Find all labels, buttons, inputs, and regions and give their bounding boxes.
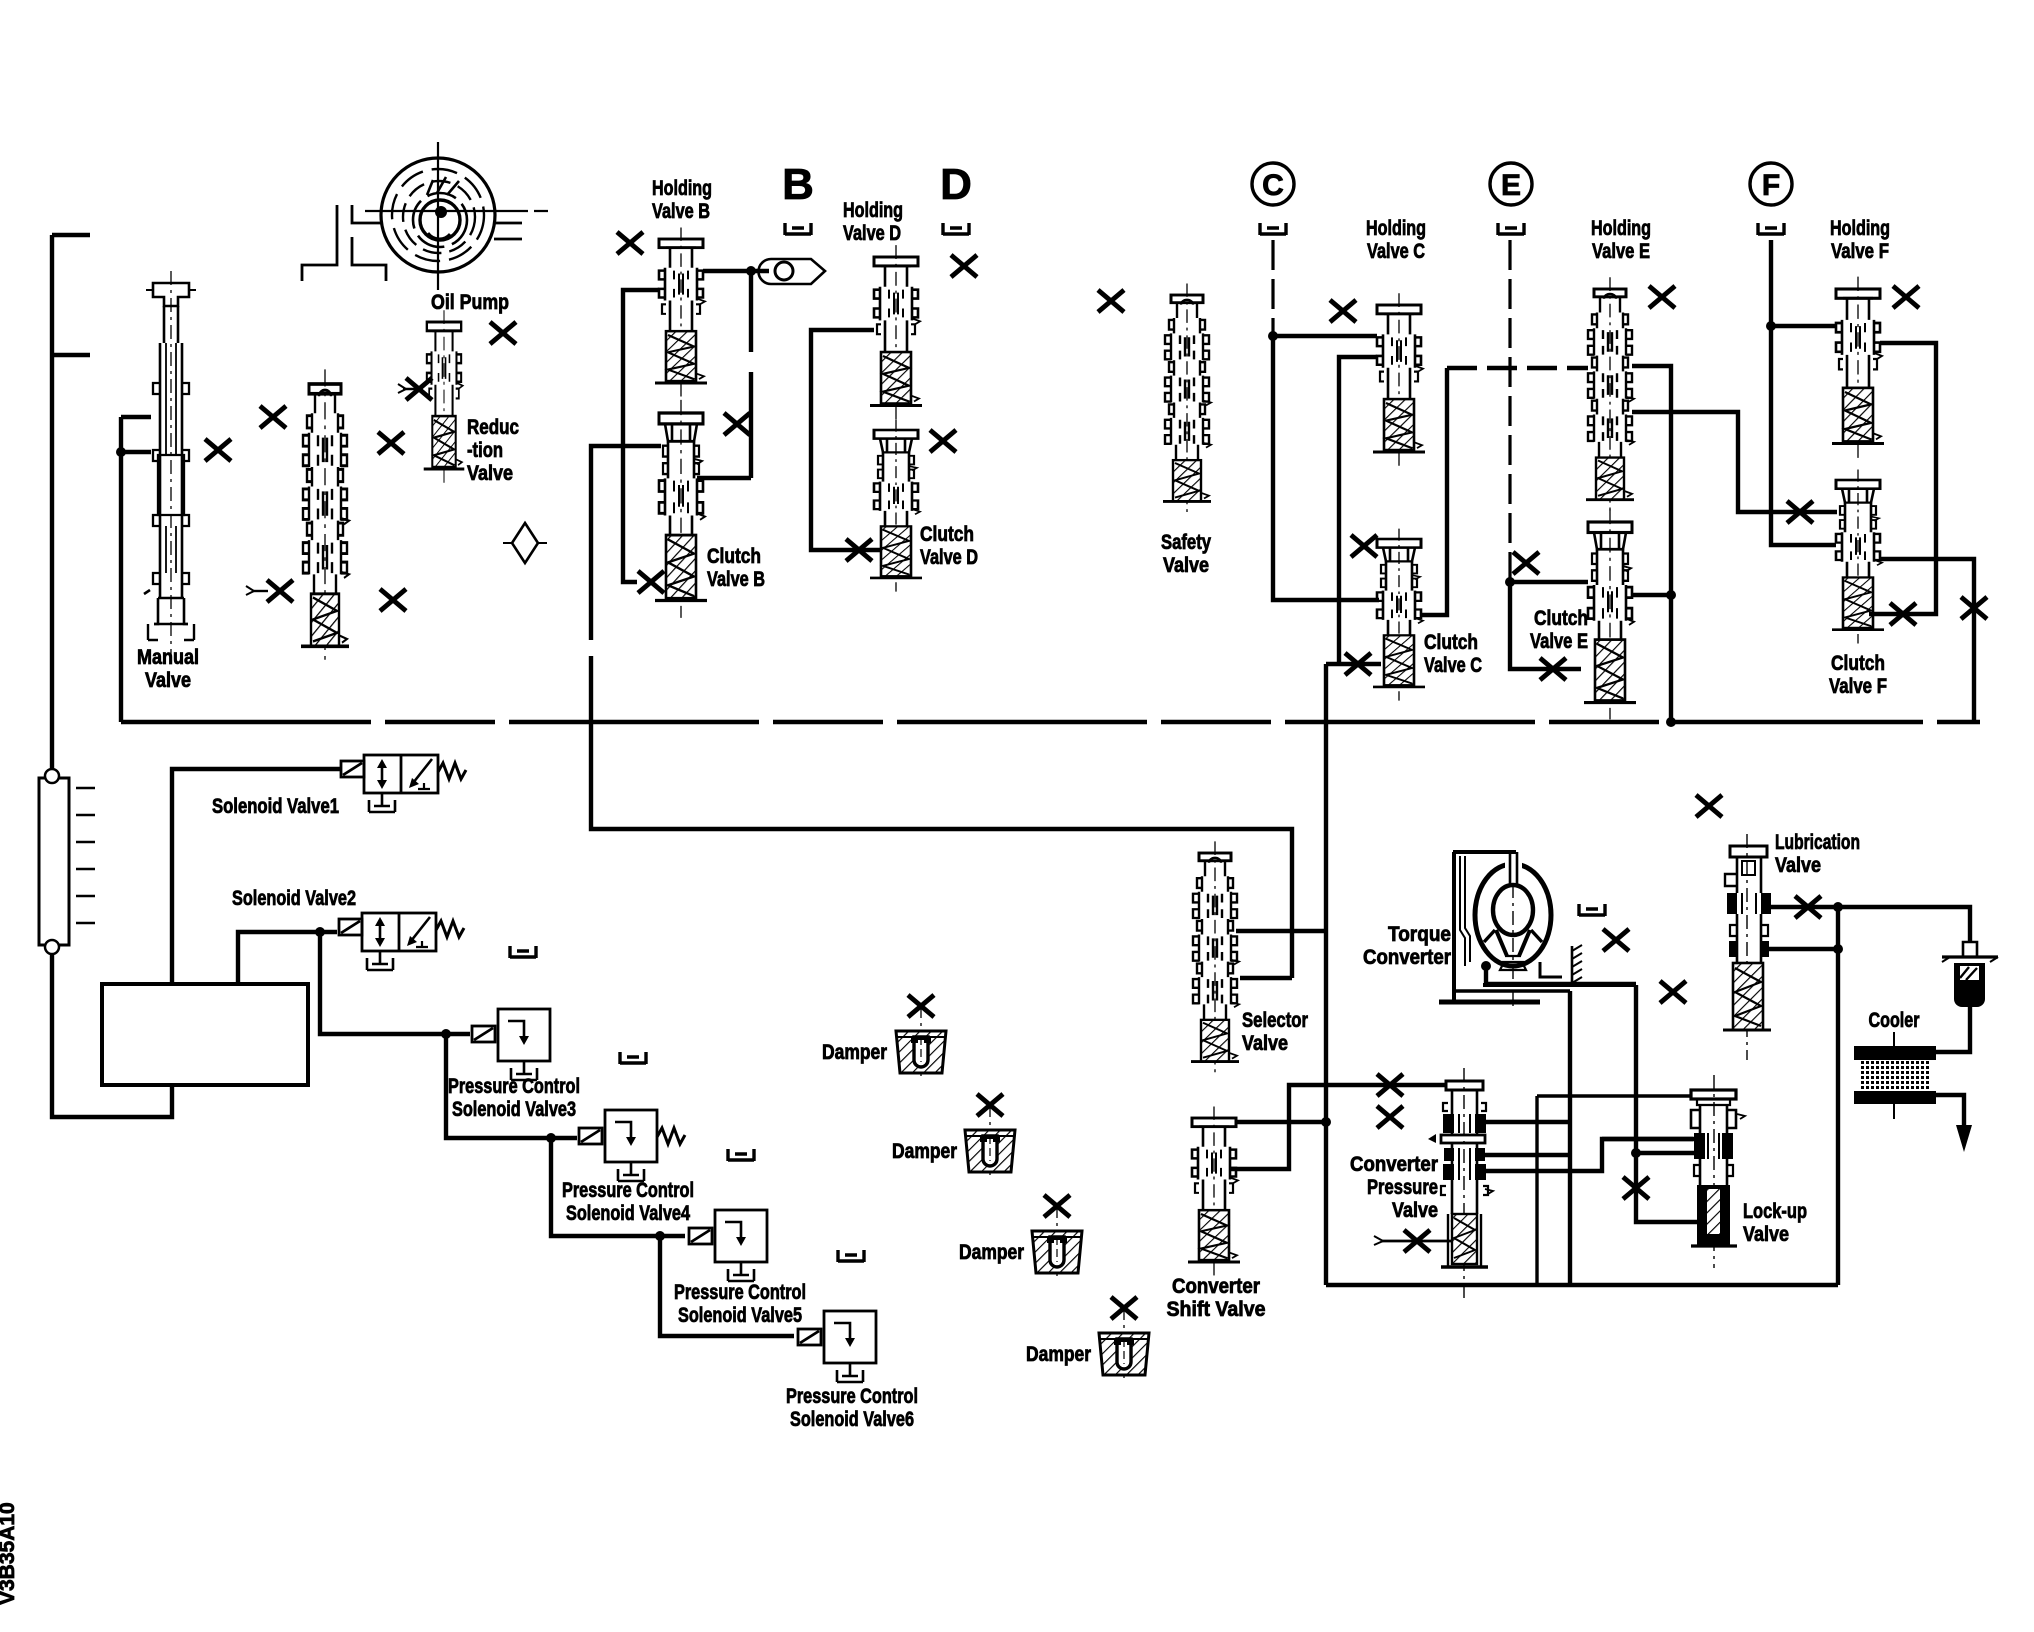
wire clutch valve C spring line [1326, 662, 1381, 666]
wire tank bottom to controller return [52, 954, 172, 1117]
wire clutch valve C out to holding valve E (chain) [1420, 368, 1447, 615]
svg-text:Valve: Valve [1743, 1223, 1789, 1246]
svg-text:Valve: Valve [1163, 554, 1209, 577]
orifice X between manual and spool [205, 439, 231, 461]
wire shift valve to converter pressure valve [1231, 1085, 1446, 1169]
svg-text:Solenoid Valve2: Solenoid Valve2 [232, 887, 356, 910]
holding valve D [870, 245, 922, 419]
wire C line down [1271, 240, 1274, 336]
orifice X right of TC [1603, 929, 1629, 951]
svg-text:Solenoid Valve4: Solenoid Valve4 [566, 1202, 690, 1225]
svg-text:Holding: Holding [1591, 217, 1651, 240]
svg-text:Valve C: Valve C [1424, 654, 1482, 677]
exhaust bracket under E [1498, 223, 1524, 235]
orifice X right of holding valve E [1649, 286, 1675, 308]
wire TC right side [1540, 962, 1562, 977]
wire F line down [1771, 240, 1836, 545]
svg-text:Holding: Holding [843, 199, 903, 222]
orifice X clutch valve B spring line [638, 571, 664, 593]
node C circle [1252, 163, 1294, 205]
wire selector port to riser [1236, 929, 1326, 933]
orifice X right of oil pump [490, 322, 516, 344]
filter [1942, 942, 1998, 1007]
wire pilot cascade to PCSV3 [320, 932, 470, 1034]
node junction C [1268, 331, 1278, 341]
svg-text:Valve: Valve [1242, 1032, 1288, 1055]
node junction check valve [746, 266, 756, 276]
check valve [759, 259, 826, 284]
svg-text:Valve B: Valve B [652, 200, 710, 223]
wire lubrication out [1770, 907, 1970, 942]
svg-text:Selector: Selector [1242, 1009, 1308, 1032]
damper 3 [1032, 1206, 1082, 1276]
wire clutch valve F out to bus [1880, 559, 1974, 722]
svg-text:Damper: Damper [892, 1140, 957, 1163]
wire converter shift valve cap port [1237, 1120, 1326, 1124]
node junction PCSV5 [655, 1231, 665, 1241]
svg-text:Solenoid Valve3: Solenoid Valve3 [452, 1098, 576, 1121]
node E circle [1490, 163, 1532, 205]
svg-text:Solenoid Valve1: Solenoid Valve1 [212, 795, 339, 818]
wire converter feed riser [1568, 991, 1572, 1285]
wire holding valve C port2 to clutch C spring loop [1339, 357, 1377, 664]
wire lube return riser [1836, 907, 1840, 1285]
orifice X on shift-CPV wire [1377, 1074, 1403, 1096]
wire TC drain [1486, 966, 1636, 984]
orifice X right of holding valve F [1893, 286, 1919, 308]
svg-text:Converter: Converter [1172, 1275, 1260, 1298]
svg-text:Pressure Control: Pressure Control [448, 1075, 580, 1098]
orifice X right of clutch valve D [930, 430, 956, 452]
svg-text:-tion: -tion [467, 439, 503, 462]
svg-text:Solenoid Valve5: Solenoid Valve5 [678, 1304, 802, 1327]
svg-text:Pressure: Pressure [1367, 1176, 1438, 1199]
node junction clutch E out [1666, 590, 1676, 600]
oil pump [365, 142, 548, 290]
orifice X left of safety valve [1098, 290, 1124, 312]
wire solenoid valve1 feed [172, 769, 341, 984]
wire F to holding valve F [1771, 324, 1836, 328]
node junction lock-up port2 [1631, 1148, 1641, 1158]
wire selector riser [1324, 664, 1328, 1285]
wire CPV port1 to converter feed riser [1483, 1120, 1571, 1124]
svg-text:Valve: Valve [1392, 1199, 1438, 1222]
holding valve B [655, 227, 707, 396]
exhaust bracket near PCSV4 [728, 1149, 754, 1161]
converter pressure valve [1428, 1068, 1493, 1300]
orifice X on E-F line [1787, 501, 1813, 523]
torque converter [1453, 852, 1551, 1010]
orifice X below shift-CPV wire [1377, 1106, 1403, 1128]
svg-text:Clutch: Clutch [1534, 607, 1588, 630]
exhaust bracket under C [1260, 223, 1286, 235]
exhaust bracket near SV2 [510, 946, 536, 958]
wire pilot cascade to PCSV6 [660, 1236, 794, 1336]
clutch valve E [1584, 509, 1636, 719]
arrow cooler outlet [1956, 1125, 1972, 1152]
manual valve [144, 271, 196, 660]
lubrication valve [1723, 834, 1771, 1060]
svg-text:Valve C: Valve C [1367, 240, 1425, 263]
converter shift valve [1188, 1106, 1240, 1275]
reduction valve pilot stub [403, 388, 423, 390]
clutch valve C [1373, 529, 1425, 701]
wire holding valve B left port down to clutch valve B spring [623, 290, 659, 582]
svg-text:Lubrication: Lubrication [1775, 831, 1860, 854]
wire holding valve E right to bus riser [1632, 366, 1671, 722]
orifice X right of left spool [378, 432, 404, 454]
node junction PCSV4 [546, 1133, 556, 1143]
wire lock-up port2 [1636, 1151, 1696, 1155]
node junction E [1505, 577, 1515, 587]
pressure control solenoid valve 6 [824, 1311, 876, 1363]
svg-text:Holding: Holding [652, 177, 712, 200]
svg-text:Valve F: Valve F [1831, 240, 1889, 263]
svg-text:Oil Pump: Oil Pump [431, 291, 509, 314]
wire main pressure bus (chain line) [121, 720, 1980, 724]
orifice X clutch valve C spring [1345, 653, 1371, 675]
svg-text:Lock-up: Lock-up [1743, 1200, 1807, 1223]
orifice X left-lower with tick [252, 590, 268, 592]
wire holding valve D left port down to clutch valve D spring [811, 330, 882, 550]
exhaust bracket under B [785, 223, 811, 235]
wire E line down [1508, 240, 1511, 582]
orifice X lower right of left spool [380, 589, 406, 611]
TC bottom feed lines [1483, 983, 1636, 987]
svg-text:Valve E: Valve E [1530, 630, 1588, 653]
orifice X above lubrication valve [1696, 795, 1722, 817]
wire holding valve B to check valve [703, 269, 769, 273]
wire solenoid valve2 feed [238, 932, 337, 984]
svg-text:V3B35A10: V3B35A10 [0, 1502, 19, 1605]
selector valve [1191, 841, 1239, 1074]
svg-text:Solenoid Valve6: Solenoid Valve6 [790, 1408, 914, 1431]
node left bracket lower stub [52, 353, 90, 357]
svg-text:Torque: Torque [1388, 923, 1451, 946]
svg-text:Cooler: Cooler [1869, 1009, 1920, 1032]
clutch valve B [655, 400, 707, 618]
wire CPV port3 to lock-up valve [1484, 1139, 1693, 1171]
orifice X left of clutch valve C cap [1351, 535, 1377, 557]
wire cooler outlet [1936, 1095, 1964, 1125]
pressure control solenoid valve 4 [605, 1110, 657, 1162]
wire pilot cascade to PCSV4 [446, 1034, 577, 1138]
svg-text:Valve D: Valve D [843, 222, 901, 245]
orifice X left of holding valve B [617, 232, 643, 254]
svg-text:C: C [1262, 169, 1284, 202]
svg-text:Clutch: Clutch [1424, 631, 1478, 654]
svg-text:Clutch: Clutch [1831, 652, 1885, 675]
holding valve F [1832, 277, 1884, 458]
wire C to holding valve C [1273, 334, 1377, 338]
cooler [1854, 1032, 1936, 1119]
lock-up valve [1691, 1075, 1745, 1268]
svg-text:Valve E: Valve E [1592, 240, 1650, 263]
svg-text:Valve: Valve [145, 669, 191, 692]
svg-text:F: F [1762, 169, 1780, 202]
orifice X left of clutch valve E [1513, 552, 1539, 574]
exhaust bracket near PCSV5 [838, 1250, 864, 1262]
wire pilot cascade to PCSV5 [551, 1138, 685, 1236]
node junction PCSV3 [441, 1029, 451, 1039]
wire clutch valve B out to selector valve [591, 446, 1292, 978]
svg-text:E: E [1501, 169, 1521, 202]
svg-text:Damper: Damper [822, 1041, 887, 1064]
wire selector valve port stub [1240, 976, 1292, 980]
node junction selector riser [1321, 1117, 1331, 1127]
svg-text:Pressure Control: Pressure Control [674, 1281, 806, 1304]
reduction valve [424, 310, 465, 482]
solenoid valve 1 [364, 755, 438, 793]
svg-text:Valve: Valve [467, 462, 513, 485]
node junction SV2 feed [315, 927, 325, 937]
exhaust bracket right of TC [1579, 904, 1605, 916]
orifice X clutch valve D spring line [846, 539, 872, 561]
orifice X on CPV pilot stub [1404, 1230, 1430, 1252]
controller block [102, 984, 308, 1085]
orifice X on clutch F out [1961, 597, 1987, 619]
svg-text:Valve F: Valve F [1829, 675, 1887, 698]
wire clutch valve E right port [1632, 593, 1671, 597]
node junction bus [1666, 717, 1676, 727]
node F circle [1750, 163, 1792, 205]
solenoid valve 2 [362, 913, 436, 951]
tank (strainer) [39, 769, 95, 954]
node junction torque converter drain [1481, 961, 1491, 971]
wire bottom return loop [1326, 1283, 1838, 1287]
orifice X right of TC bundle [1660, 981, 1686, 1003]
exhaust bracket under F [1758, 223, 1784, 235]
pressure control solenoid valve 5 [715, 1210, 767, 1262]
svg-text:Pressure Control: Pressure Control [786, 1385, 918, 1408]
orifice X left of holding valve C [1330, 300, 1356, 322]
wire lube port2 [1767, 947, 1838, 951]
exhaust bracket near PCSV3 [620, 1052, 646, 1064]
svg-text:B: B [782, 160, 814, 209]
damper 4 [1099, 1308, 1149, 1378]
svg-text:Reduc: Reduc [467, 416, 519, 439]
svg-text:Valve B: Valve B [707, 568, 765, 591]
wire E to clutch valve E port [1510, 580, 1588, 584]
holding valve C [1373, 293, 1425, 465]
safety valve [1163, 283, 1211, 513]
wire lock-up port1 [1602, 1137, 1696, 1141]
svg-text:Clutch: Clutch [707, 545, 761, 568]
wire C down to clutch valve C [1273, 336, 1379, 600]
orifice X clutch F spring line [1890, 603, 1916, 625]
wire holding valve E port2 to clutch valve F cap [1632, 412, 1837, 512]
pressure control solenoid valve 3 [498, 1009, 550, 1061]
node left bracket top stub [52, 233, 90, 237]
damper 2 [965, 1105, 1015, 1175]
clutch valve D [870, 420, 922, 592]
node junction lube port2 [1833, 944, 1843, 954]
wire holding valve F right loop to clutch F spring [1869, 343, 1936, 614]
damper 1 [896, 1006, 946, 1076]
wire lock-up spring side [1636, 1153, 1700, 1222]
orifice X clutch valve E spring [1540, 658, 1566, 680]
svg-text:Damper: Damper [959, 1241, 1024, 1264]
svg-text:Pressure Control: Pressure Control [562, 1179, 694, 1202]
svg-text:Shift Valve: Shift Valve [1167, 1298, 1266, 1321]
valve left pilot spool (unnamed) [301, 369, 349, 662]
svg-text:Safety: Safety [1161, 531, 1211, 554]
node junction manual valve port [116, 447, 126, 457]
wire left supply bus vertical [50, 235, 54, 769]
orifice X on pilot line B [724, 413, 750, 435]
wire filter to cooler [1936, 1007, 1970, 1052]
svg-text:D: D [940, 160, 972, 209]
oil pump suction piping [302, 205, 522, 281]
exhaust bracket under D [943, 223, 969, 235]
wire CPV port2 to return [1483, 1153, 1570, 1157]
wire lock-up top feed [1537, 1094, 1691, 1097]
diamond symbol [512, 523, 538, 563]
wire manual valve ports to main bus [121, 417, 151, 722]
clutch valve F [1832, 470, 1884, 644]
wire check valve junction down to clutch valve B [697, 271, 751, 478]
node junction lube out [1833, 902, 1843, 912]
svg-text:Converter: Converter [1350, 1153, 1438, 1176]
wall hatch right of TC [1572, 945, 1582, 984]
orifice X left of left spool [260, 406, 286, 428]
svg-text:Manual: Manual [137, 646, 199, 669]
orifice X on lock-up drop [1623, 1177, 1649, 1199]
wire E down to clutch valve E spring [1510, 582, 1581, 669]
wire CPV pilot stub [1381, 1240, 1452, 1243]
node junction F [1766, 321, 1776, 331]
svg-text:Converter: Converter [1363, 946, 1451, 969]
holding valve E [1586, 277, 1634, 512]
svg-text:Valve: Valve [1775, 854, 1821, 877]
wire TC drain drop to lock-up pilot [1634, 985, 1638, 1153]
svg-text:Clutch: Clutch [920, 523, 974, 546]
svg-text:Damper: Damper [1026, 1343, 1091, 1366]
svg-text:Holding: Holding [1830, 217, 1890, 240]
svg-text:Holding: Holding [1366, 217, 1426, 240]
orifice X right of holding valve D [951, 255, 977, 277]
orifice X on lubrication out [1795, 896, 1821, 918]
svg-text:Valve D: Valve D [920, 546, 978, 569]
